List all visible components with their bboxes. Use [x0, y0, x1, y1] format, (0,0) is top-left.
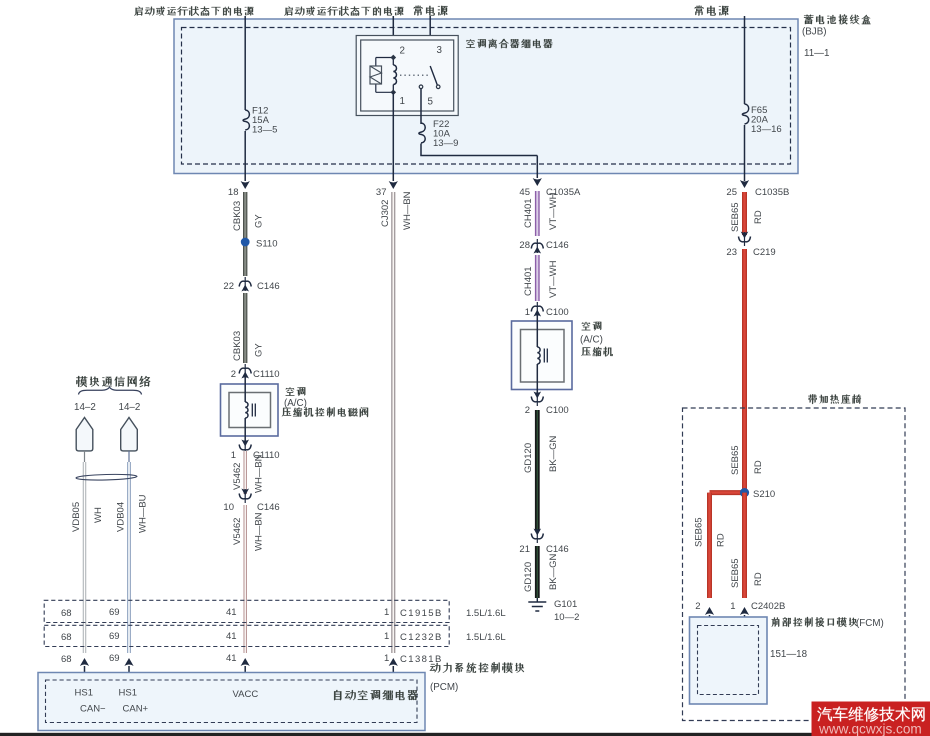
svg-text:VDB04: VDB04 — [116, 502, 127, 532]
PCM entry arrow pin 1 — [389, 658, 398, 666]
svg-text:C146: C146 — [546, 240, 569, 251]
wire: relay pin5 to F22 — [420, 89, 422, 124]
connector row C1232B — [44, 625, 449, 646]
svg-text:13—16: 13—16 — [751, 124, 782, 135]
off-page connector pentagon B — [121, 418, 138, 451]
svg-text:C100: C100 — [546, 405, 569, 416]
svg-text:V5462: V5462 — [232, 463, 243, 490]
svg-text:SEB65: SEB65 — [730, 558, 741, 588]
connector pin 37 exit arrow — [389, 181, 398, 189]
svg-text:(BJB): (BJB) — [802, 27, 827, 38]
svg-text:68: 68 — [61, 632, 72, 643]
svg-text:HS1: HS1 — [75, 688, 93, 699]
svg-text:BK—GN: BK—GN — [548, 435, 559, 472]
svg-text:C1110: C1110 — [253, 369, 280, 380]
svg-text:2: 2 — [231, 369, 236, 380]
wire CH401 VT-WH segment 1 — [535, 191, 540, 236]
svg-text:CH401: CH401 — [523, 198, 534, 228]
wire GD120 BK-GN segment 1 — [535, 410, 540, 531]
svg-text:CH401: CH401 — [523, 266, 534, 296]
svg-text:28: 28 — [519, 240, 530, 251]
svg-text:(FCM): (FCM) — [856, 618, 884, 629]
svg-text:11—1: 11—1 — [804, 48, 829, 59]
svg-text:69: 69 — [109, 653, 120, 664]
wire SEB65 RD segment 1 — [742, 192, 747, 235]
relay pin 1 node — [390, 89, 396, 95]
fuse F22 10A — [419, 123, 425, 143]
wire CH401 VT-WH segment 2 — [535, 255, 540, 301]
svg-text:(A/C): (A/C) — [580, 335, 603, 346]
svg-text:14–2: 14–2 — [119, 402, 141, 413]
connector C219 pin 23 — [744, 232, 746, 246]
svg-text:G101: G101 — [554, 599, 577, 610]
PCM entry arrows CAN — [80, 658, 89, 666]
svg-text:1: 1 — [384, 607, 389, 618]
svg-text:37: 37 — [376, 187, 387, 198]
wire SEB65 RD main down — [742, 493, 747, 598]
svg-text:C146: C146 — [257, 281, 280, 292]
wire: F22 down, right and down to exit — [420, 144, 422, 156]
connector C1110 pin 1 — [244, 440, 246, 454]
svg-text:1.5L/1.6L: 1.5L/1.6L — [466, 608, 506, 619]
svg-text:S210: S210 — [753, 489, 775, 500]
svg-text:13—5: 13—5 — [252, 125, 277, 136]
svg-text:10—2: 10—2 — [554, 612, 579, 623]
wire: feed 2 through relay coil — [392, 16, 394, 58]
svg-text:14–2: 14–2 — [74, 402, 96, 413]
wire CJ302 WH-BN long run — [391, 192, 395, 653]
relay switch arm pin3 to pin5 — [430, 66, 437, 85]
net label: power in start or run 1 — [134, 6, 253, 16]
svg-text:BK—GN: BK—GN — [548, 553, 559, 590]
wire V5462 WH-BN segment 2 — [243, 505, 246, 653]
svg-text:RD: RD — [753, 572, 764, 586]
svg-text:1: 1 — [400, 96, 405, 107]
connector C1110 pin 2 — [244, 364, 246, 378]
connector C100 pin 1 — [536, 302, 538, 316]
svg-text:2: 2 — [525, 405, 530, 416]
relay K: A/C clutch relay box — [356, 36, 458, 116]
svg-text:23: 23 — [726, 247, 737, 258]
svg-text:CAN+: CAN+ — [123, 704, 149, 715]
svg-text:25: 25 — [726, 187, 737, 198]
A/C compressor U2 — [512, 321, 573, 390]
FCM entry arrows — [705, 607, 714, 615]
fuse F65 20A — [742, 104, 748, 124]
compressor label — [582, 322, 602, 331]
connector C146 pin 22 — [244, 277, 246, 291]
svg-text:WH—BN: WH—BN — [254, 454, 265, 493]
svg-text:CJ302: CJ302 — [380, 200, 391, 227]
svg-text:C100: C100 — [546, 307, 569, 318]
svg-text:S110: S110 — [256, 239, 277, 250]
front control interface module FCM — [690, 617, 768, 704]
net label: hot at all times 2 — [695, 6, 729, 16]
svg-text:(PCM): (PCM) — [430, 682, 458, 693]
relay pin 2 node — [390, 55, 396, 61]
svg-text:22: 22 — [223, 281, 234, 292]
A/C compressor control solenoid U1 — [221, 384, 279, 436]
svg-text:VDB05: VDB05 — [71, 502, 82, 532]
svg-text:C146: C146 — [257, 502, 280, 513]
wire GD120 BK-GN segment 2 — [535, 546, 540, 598]
page bottom edge strip — [0, 733, 930, 736]
twisted pair marker — [76, 474, 137, 481]
svg-text:2: 2 — [400, 46, 405, 57]
PCM entry arrow VACC — [241, 658, 250, 666]
svg-text:WH—BU: WH—BU — [138, 494, 149, 533]
svg-text:CBK03: CBK03 — [232, 201, 243, 231]
svg-text:41: 41 — [226, 631, 237, 642]
relay coil resistor element — [370, 66, 382, 84]
svg-text:151—18: 151—18 — [770, 649, 808, 660]
svg-text:5: 5 — [428, 97, 434, 108]
label: module communication network — [76, 376, 150, 387]
net label: hot at all times 1 — [414, 6, 448, 16]
svg-text:69: 69 — [109, 631, 120, 642]
svg-text:1.5L/1.6L: 1.5L/1.6L — [466, 632, 506, 643]
splice S210 — [740, 488, 749, 497]
svg-text:C1232B: C1232B — [400, 632, 443, 643]
svg-text:RD: RD — [716, 533, 727, 547]
svg-text:VACC: VACC — [233, 689, 259, 700]
wire VDB04 WH-BU — [128, 451, 130, 462]
svg-text:WH: WH — [93, 507, 104, 523]
ground G101 — [536, 598, 538, 602]
svg-text:GY: GY — [254, 214, 265, 228]
connector C1035A pin 45 exit arrow — [533, 178, 542, 186]
svg-text:2: 2 — [695, 601, 700, 612]
wire SEB65 RD segment 2 long — [742, 249, 747, 493]
wire: feed 1 into F12 — [244, 16, 246, 110]
svg-text:www.qcwxjs.com: www.qcwxjs.com — [818, 722, 922, 736]
relay coil branch — [376, 57, 394, 59]
svg-text:1: 1 — [730, 601, 735, 612]
svg-text:WH—BN: WH—BN — [402, 191, 413, 230]
connector C146 pin 10 — [244, 489, 246, 503]
label: auto A/C relay — [334, 690, 418, 700]
connector row C1915B — [44, 600, 449, 622]
svg-text:C219: C219 — [753, 247, 776, 258]
svg-text:13—9: 13—9 — [433, 138, 458, 149]
svg-text:(A/C): (A/C) — [284, 398, 307, 409]
wire: F12 to box bottom — [244, 131, 246, 181]
svg-text:21: 21 — [519, 544, 530, 555]
connector C100 pin 2 — [536, 392, 538, 406]
svg-text:RD: RD — [753, 210, 764, 224]
wire VDB05 WH — [84, 451, 86, 462]
wire SEB65 RD branch horizontal — [710, 490, 745, 495]
svg-text:3: 3 — [437, 45, 443, 56]
powertrain control module PCM — [38, 673, 425, 731]
wire: F65 to box bottom — [744, 125, 746, 181]
svg-text:CAN−: CAN− — [80, 704, 106, 715]
svg-text:C1915B: C1915B — [400, 608, 443, 619]
svg-text:C1035B: C1035B — [755, 187, 789, 198]
wire V5462 WH-BN segment 1 — [243, 451, 246, 494]
svg-text:VT—WH: VT—WH — [548, 260, 559, 298]
watermark banner — [812, 702, 930, 736]
svg-text:C1381B: C1381B — [400, 654, 443, 665]
svg-text:10: 10 — [223, 502, 234, 513]
connector pin 18 exit arrow — [241, 181, 250, 189]
svg-text:41: 41 — [226, 607, 237, 618]
wire: relay pin1 down out of box — [392, 92, 394, 181]
svg-text:45: 45 — [519, 187, 530, 198]
svg-text:HS1: HS1 — [119, 688, 137, 699]
connector C146 pin 21 — [536, 529, 538, 543]
relay coil inductor element — [392, 58, 394, 66]
svg-text:GY: GY — [254, 343, 265, 357]
label BJB — [804, 14, 871, 24]
svg-text:68: 68 — [61, 654, 72, 665]
svg-text:RD: RD — [753, 460, 764, 474]
svg-text:CBK03: CBK03 — [232, 331, 243, 361]
svg-text:SEB65: SEB65 — [694, 517, 705, 547]
svg-text:VT—WH: VT—WH — [548, 192, 559, 230]
svg-text:SEB65: SEB65 — [730, 445, 741, 475]
fuse F12 15A — [243, 110, 249, 130]
wire CBK03 GY segment 2 — [243, 293, 247, 363]
battery junction box BJB outline — [174, 19, 798, 174]
svg-text:SEB65: SEB65 — [730, 202, 741, 232]
svg-text:1: 1 — [525, 307, 530, 318]
svg-text:1: 1 — [231, 450, 236, 461]
svg-text:GD120: GD120 — [523, 562, 534, 592]
wire: hot feed 2 to F65 — [744, 16, 746, 104]
svg-text:1: 1 — [384, 631, 389, 642]
wire SEB65 RD branch left down — [707, 493, 712, 598]
off-page connector pentagon A — [76, 418, 93, 451]
svg-text:68: 68 — [61, 608, 72, 619]
connector C146 pin 28 — [536, 239, 538, 253]
splice S110 — [241, 238, 250, 247]
svg-text:C2402B: C2402B — [751, 601, 785, 612]
svg-text:1: 1 — [384, 653, 389, 664]
svg-text:V5462: V5462 — [232, 518, 243, 545]
dashed box: with heated seats — [683, 408, 906, 721]
relay actuation dotted line — [400, 74, 428, 76]
connector C1035B pin 25 exit arrow — [740, 180, 749, 188]
svg-text:WH—BN: WH—BN — [254, 512, 265, 551]
svg-text:C146: C146 — [546, 544, 569, 555]
svg-text:69: 69 — [109, 607, 120, 618]
relay label — [466, 39, 552, 49]
svg-text:GD120: GD120 — [523, 443, 534, 473]
net label: power in start or run 2 — [284, 6, 403, 16]
svg-text:18: 18 — [228, 187, 239, 198]
wire CBK03 GY segment 1 — [243, 192, 247, 276]
brace — [79, 387, 142, 394]
svg-text:41: 41 — [226, 653, 237, 664]
wire: hot feed to relay pin 3 — [429, 16, 431, 66]
solenoid label — [286, 387, 306, 396]
